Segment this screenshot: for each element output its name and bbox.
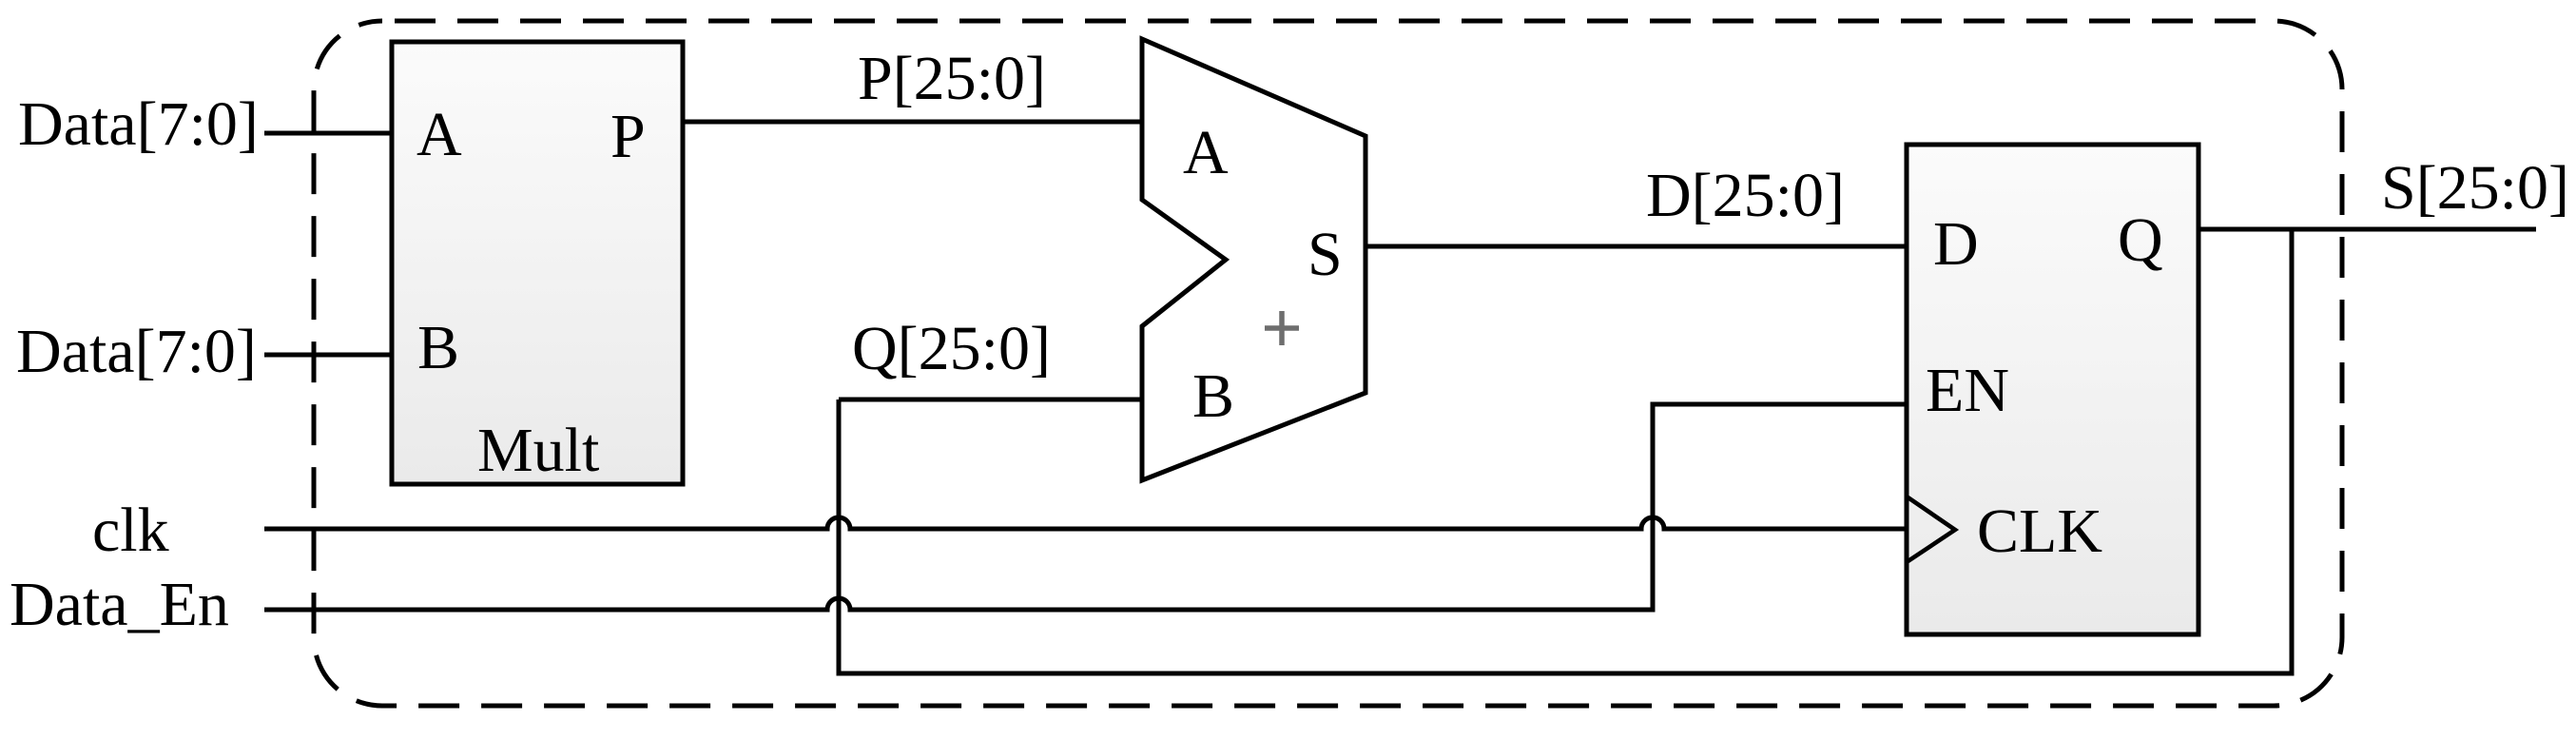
svg-text:Data[7:0]: Data[7:0] — [16, 317, 257, 386]
clock edge triangle (register) — [1907, 497, 1955, 562]
wire Data[7:0] to Mult B — [264, 353, 392, 358]
register (D flip-flop with EN/CLK) — [1907, 145, 2198, 634]
svg-text:CLK: CLK — [1977, 497, 2102, 566]
svg-text:B: B — [1192, 361, 1234, 431]
svg-text:P: P — [610, 102, 646, 171]
boundary dashed box (module outline) — [314, 21, 2342, 706]
wire S to register D — [1365, 244, 1907, 249]
svg-text:Data[7:0]: Data[7:0] — [18, 89, 259, 159]
adder U2 — [1142, 39, 1365, 480]
wire Q bus to adder B — [839, 398, 1142, 402]
wire Q output to S[25:0] — [2198, 227, 2536, 232]
svg-text:EN: EN — [1926, 356, 2009, 425]
wire clk with hops — [264, 517, 1907, 529]
svg-text:S: S — [1307, 220, 1343, 289]
svg-text:S[25:0]: S[25:0] — [2381, 153, 2569, 223]
svg-text:D: D — [1933, 209, 1979, 279]
svg-text:B: B — [417, 313, 459, 382]
wire Data_En to register EN with hop — [264, 404, 1907, 610]
svg-text:D[25:0]: D[25:0] — [1646, 161, 1845, 230]
svg-text:clk: clk — [92, 496, 169, 565]
svg-text:A: A — [416, 100, 462, 169]
multiplier Mult — [392, 42, 683, 484]
svg-text:Mult: Mult — [477, 416, 599, 485]
svg-text:Data_En: Data_En — [10, 570, 229, 639]
wire P bus Mult to adder A — [683, 120, 1142, 125]
svg-text:A: A — [1183, 118, 1229, 187]
wire feedback Q to adder B (down, left, up, right) — [839, 229, 2292, 673]
svg-text:Q: Q — [2118, 205, 2163, 275]
svg-text:P[25:0]: P[25:0] — [858, 44, 1046, 113]
svg-text:Q[25:0]: Q[25:0] — [852, 314, 1051, 383]
value label + (adder) — [1265, 311, 1299, 345]
wire Data[7:0] to Mult A — [264, 131, 392, 136]
